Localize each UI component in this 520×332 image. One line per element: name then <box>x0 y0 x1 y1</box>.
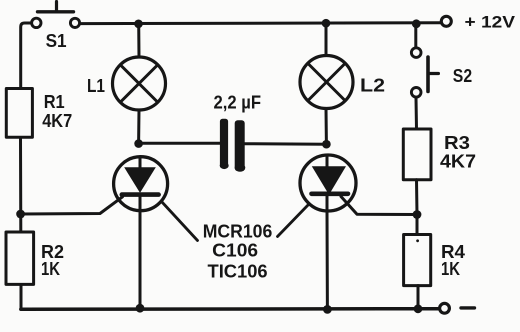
wire bottom rail <box>21 307 440 311</box>
wire R4 to bottom rail <box>417 286 420 309</box>
svg-text:C106: C106 <box>212 241 258 261</box>
node junction top right (S2 branch) <box>412 19 421 28</box>
lamp L2 <box>300 56 353 109</box>
svg-text:L1: L1 <box>87 75 105 96</box>
pointer line from SCR1 to type label <box>162 202 198 241</box>
node junction SCR2 bottom rail <box>323 305 332 314</box>
svg-text:L2: L2 <box>360 75 385 96</box>
svg-text:R1: R1 <box>44 91 65 112</box>
wire left rail upper (S1 to R1) <box>21 23 31 89</box>
wire gate node to R4 <box>416 215 419 235</box>
node junction gate SCR1 / left rail <box>16 210 25 219</box>
node junction R3/R4/gate2 <box>413 210 422 219</box>
wire S2 to R3 <box>415 98 419 129</box>
wire SCR2 gate to R3/R4 node <box>341 197 417 215</box>
wire capacitor right lead <box>244 142 326 146</box>
svg-text:1K: 1K <box>41 259 60 279</box>
terminal minus <box>440 303 450 313</box>
SCR Q1 (MCR106) <box>114 157 168 211</box>
resistor R1 <box>6 89 32 138</box>
ink speck inside R4 <box>416 239 419 242</box>
resistor R4 <box>404 235 431 286</box>
resistor R3 <box>403 129 431 180</box>
wire R3 to gate node <box>415 180 419 215</box>
switch S1 <box>32 2 80 28</box>
node junction above L1 <box>134 20 143 29</box>
svg-text:4K7: 4K7 <box>440 152 476 172</box>
svg-text:S2: S2 <box>453 66 472 86</box>
wire top rail to L2 <box>325 23 328 55</box>
wire L1 to capacitor node <box>137 110 140 144</box>
svg-text:4K7: 4K7 <box>42 111 72 131</box>
pointer line from SCR2 to type label <box>278 205 309 237</box>
wire node to S2 <box>414 24 417 47</box>
terminal +12V <box>441 16 451 26</box>
svg-text:MCR106: MCR106 <box>203 222 273 242</box>
label minus sign <box>461 306 475 309</box>
wire top rail to L1 <box>137 24 140 58</box>
node junction R4 bottom rail <box>414 304 423 313</box>
node junction SCR1 bottom rail <box>136 304 145 313</box>
SCR Q2 (MCR106) <box>300 155 356 211</box>
svg-text:S1: S1 <box>46 30 67 51</box>
wire left rail lower (R2 to bottom rail) <box>20 284 23 309</box>
node junction above L2 <box>322 19 331 28</box>
svg-text:2,2 µF: 2,2 µF <box>214 93 262 113</box>
svg-text:1K: 1K <box>441 259 460 279</box>
wire left rail mid (R1 to R2) <box>19 137 22 232</box>
lamp L1 <box>113 57 166 110</box>
wire SCR1 gate to R1/R2 node <box>21 197 123 214</box>
capacitor C1 2,2uF <box>220 119 246 172</box>
wire L2 to capacitor node <box>325 109 328 145</box>
svg-text:TIC106: TIC106 <box>208 261 268 281</box>
wire top rail <box>81 21 441 25</box>
wire capacitor left lead <box>139 142 220 145</box>
switch S2 <box>411 48 438 97</box>
svg-text:+ 12V: + 12V <box>465 14 516 32</box>
svg-text:R3: R3 <box>444 132 470 153</box>
resistor R2 <box>6 232 34 284</box>
node junction capacitor right <box>322 140 331 149</box>
wire SCR2 cathode to bottom rail <box>326 211 329 309</box>
wire SCR1 cathode to bottom rail <box>139 211 142 309</box>
node junction capacitor left <box>134 139 143 148</box>
